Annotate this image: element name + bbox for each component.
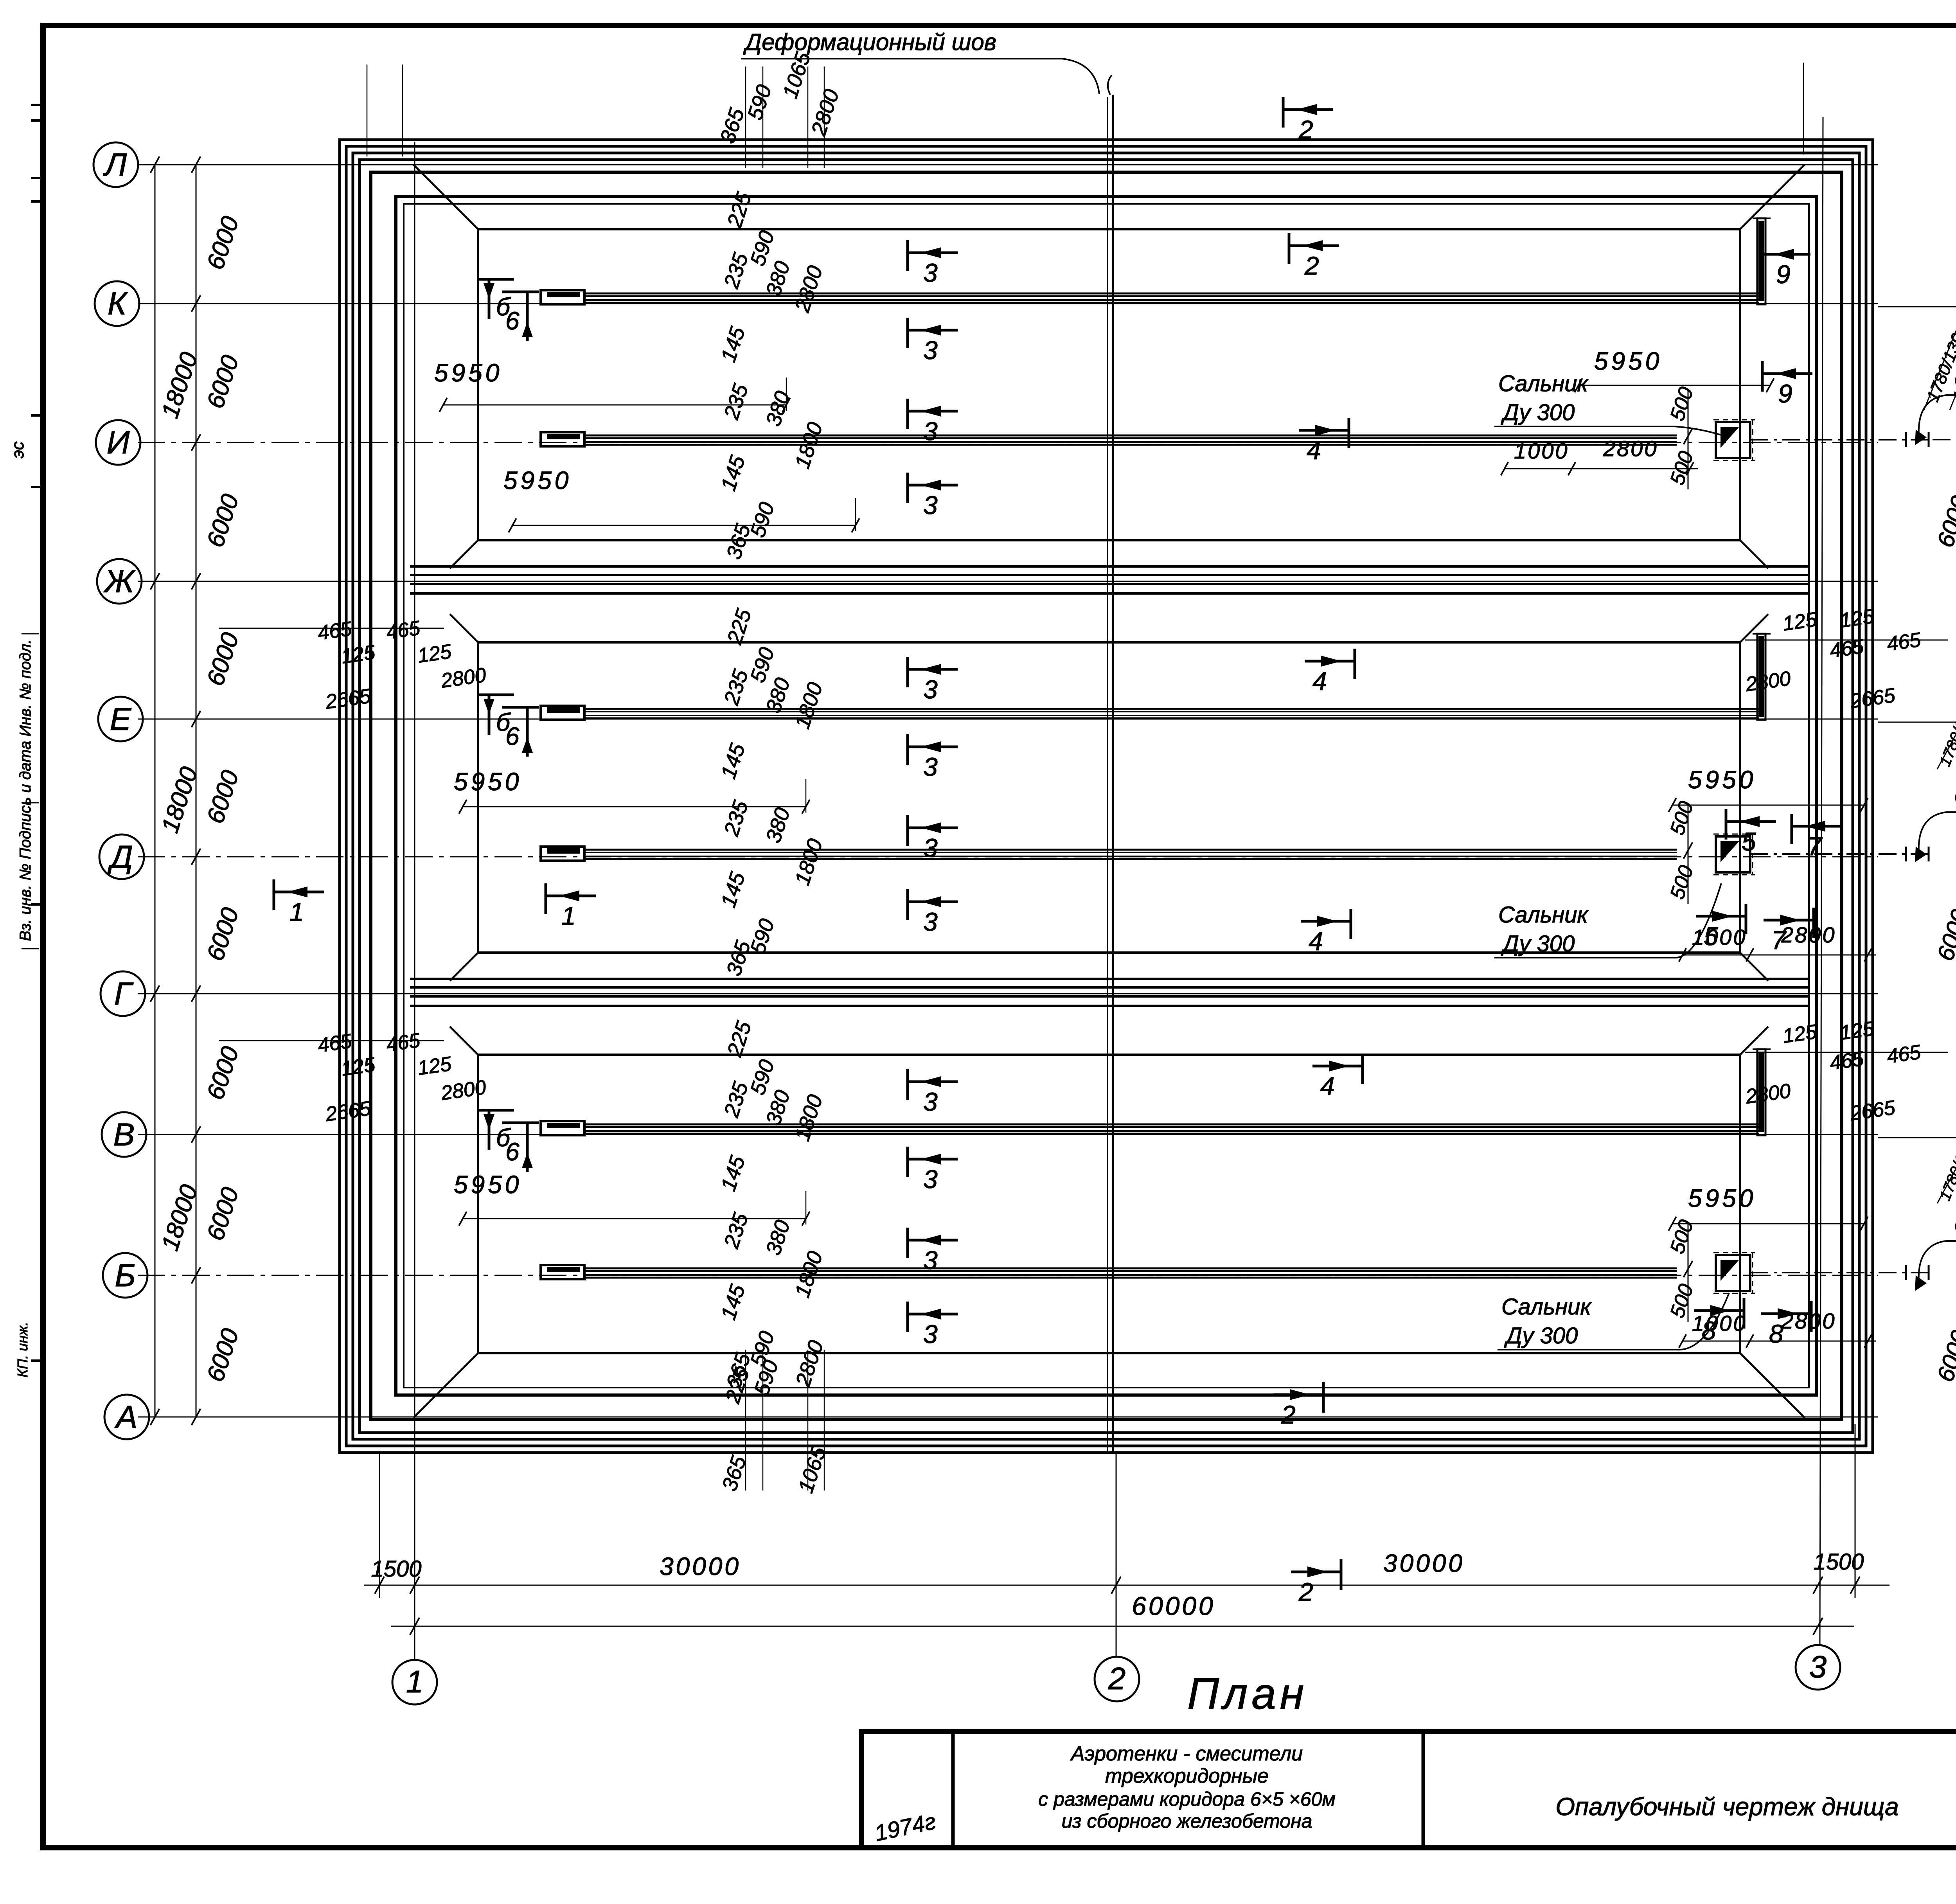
svg-text:6: 6 (505, 307, 520, 335)
section flags 6-6 (477, 279, 514, 321)
svg-text:1000: 1000 (1692, 1311, 1747, 1336)
axis bubble А (104, 1395, 149, 1439)
section flags 2-2 (1283, 97, 1333, 144)
tank 1 corner miters (413, 165, 478, 229)
svg-text:125: 125 (1839, 605, 1876, 632)
svg-text:125: 125 (340, 641, 377, 668)
svg-text:Ж: Ж (103, 564, 136, 599)
axis bubble К (95, 281, 139, 326)
svg-text:5950: 5950 (454, 1170, 522, 1199)
svg-text:2800: 2800 (1603, 436, 1658, 461)
svg-text:6: 6 (505, 722, 520, 750)
band 2: lower filter channel at axis Д (584, 849, 1677, 851)
svg-text:465: 465 (316, 1030, 354, 1057)
svg-text:9: 9 (1778, 379, 1792, 408)
band 2: сальник gland box (1716, 836, 1750, 872)
band 2: lower channel left end box (541, 847, 584, 861)
svg-text:из сборного железобетона: из сборного железобетона (1062, 1810, 1312, 1832)
section flags 3-3 (908, 240, 958, 287)
svg-text:5950: 5950 (1688, 1184, 1756, 1212)
svg-text:465: 465 (1828, 635, 1866, 662)
svg-text:465: 465 (1886, 628, 1923, 656)
svg-text:5950: 5950 (454, 768, 522, 796)
band 2: upper channel left end box (541, 706, 584, 720)
svg-text:К: К (108, 286, 128, 322)
svg-text:План: План (1187, 1669, 1308, 1718)
axis line В (138, 1134, 1878, 1135)
plan: outer wall inner face (396, 196, 1817, 1395)
tank 1 interior outline (478, 229, 1740, 540)
band 1: 500 dims at gland (1688, 391, 1689, 489)
band 3: upper filter channel at axis В (584, 1124, 1759, 1125)
dim extension verticals top & bottom (367, 65, 368, 156)
svg-text:Г: Г (114, 976, 134, 1012)
bottom dim line 60000 (391, 1626, 1854, 1627)
svg-text:3: 3 (923, 258, 938, 287)
left margin binder tick marks (31, 104, 44, 106)
svg-text:5950: 5950 (1688, 766, 1756, 794)
axis line 1 vertical (414, 142, 415, 1659)
axis line И (138, 442, 1878, 443)
bottom axis bubbles 1 2 3 (392, 1660, 437, 1704)
axis line 3 vertical (1820, 117, 1823, 1645)
svg-text:КП. инж.: КП. инж. (14, 1322, 31, 1377)
band 3: lower channel left end box (541, 1265, 584, 1279)
svg-text:Стальной: Стальной (1954, 784, 1956, 809)
band 3: upper channel left end box (541, 1121, 584, 1135)
svg-text:1: 1 (289, 897, 304, 926)
svg-text:Опалубочный чертеж днища: Опалубочный чертеж днища (1555, 1793, 1898, 1821)
svg-text:125: 125 (1782, 608, 1819, 635)
svg-text:Деформационный шов: Деформационный шов (743, 29, 996, 55)
svg-text:3: 3 (923, 491, 938, 520)
section flag 1-1 left margin (274, 879, 324, 926)
svg-text:1000: 1000 (1692, 925, 1747, 949)
svg-text:А: А (114, 1399, 138, 1435)
left dim line 6000 chain (196, 165, 197, 1417)
axis bubble Д (99, 834, 144, 879)
svg-text:трехкоридорные: трехкоридорные (1105, 1765, 1269, 1787)
tank 2 interior outline (478, 642, 1740, 953)
svg-text:Л: Л (103, 147, 127, 183)
svg-text:465: 465 (385, 617, 422, 644)
axis bubble В (102, 1112, 146, 1157)
band 3: steel casing pipe dash-dot (1750, 1272, 1933, 1273)
extension verticals for bottom 1500 dims (379, 1453, 380, 1598)
svg-text:5950: 5950 (1594, 347, 1662, 375)
svg-text:3: 3 (923, 675, 938, 704)
axis line Л (138, 164, 1878, 165)
svg-text:3: 3 (1809, 1649, 1827, 1684)
svg-text:3: 3 (923, 417, 938, 446)
svg-text:9: 9 (1776, 260, 1791, 289)
svg-text:1: 1 (561, 901, 576, 930)
axis bubble Е (98, 697, 143, 741)
svg-text:4: 4 (1320, 1072, 1335, 1100)
band 2: upper filter channel at axis Е (584, 708, 1759, 710)
band 1: upper filter channel at axis К (584, 293, 1759, 295)
svg-text:Ду 300: Ду 300 (1501, 931, 1575, 956)
tank 2 corner miters (450, 614, 478, 642)
svg-text:3: 3 (923, 1320, 938, 1348)
svg-text:Сальник: Сальник (1501, 1294, 1592, 1320)
svg-text:2800: 2800 (1781, 922, 1836, 947)
svg-text:6: 6 (505, 1138, 520, 1166)
svg-text:3: 3 (923, 833, 938, 862)
svg-text:Вз. инв. № Подпись и дата: Вз. инв. № Подпись и дата Инв. № подл. (17, 639, 34, 941)
band 1: lower channel left end box (541, 432, 584, 446)
expansion joint (деформационный шов) double line (1107, 97, 1108, 1453)
svg-text:465: 465 (316, 617, 354, 645)
svg-text:с размерами коридора 6×5 ×60м: с размерами коридора 6×5 ×60м (1038, 1788, 1336, 1810)
axis bubble Г (101, 971, 145, 1016)
axis line Г (138, 993, 1878, 994)
band 3: lower filter channel at axis Б (584, 1268, 1677, 1269)
axis bubble И (96, 420, 140, 465)
svg-text:1500: 1500 (371, 1556, 421, 1582)
svg-text:2: 2 (1304, 251, 1319, 280)
svg-text:125: 125 (1782, 1020, 1819, 1048)
section flags 4-4 (1299, 418, 1349, 465)
svg-text:3: 3 (923, 1246, 938, 1275)
dividing wall band at axis Г (410, 978, 1808, 980)
svg-text:В: В (113, 1117, 135, 1152)
svg-text:И: И (107, 425, 130, 460)
svg-text:2: 2 (1298, 1577, 1313, 1606)
axis И dash-dot extension to mark table (1933, 439, 1956, 440)
svg-text:2: 2 (1108, 1661, 1126, 1696)
svg-text:Б: Б (115, 1258, 135, 1293)
svg-text:Е: Е (110, 701, 132, 737)
left dim line 18000 chain (155, 165, 156, 1417)
svg-text:465: 465 (1886, 1041, 1923, 1068)
svg-text:465: 465 (385, 1029, 422, 1056)
axis bubble Ж (97, 559, 142, 604)
svg-text:эс: эс (8, 441, 27, 458)
svg-text:30000: 30000 (1383, 1549, 1465, 1577)
svg-text:Стальной: Стальной (1954, 1213, 1956, 1238)
svg-text:3: 3 (923, 1165, 938, 1194)
axis line 2 vertical below plan (1116, 1453, 1117, 1656)
plan: nested outer slab edge rectangles (340, 140, 1873, 1453)
svg-text:3: 3 (923, 907, 938, 936)
dividing wall band at axis Ж (410, 565, 1808, 568)
svg-text:5950: 5950 (503, 466, 572, 494)
band 3: upper channel right riser (1757, 1049, 1765, 1135)
svg-text:60000: 60000 (1132, 1591, 1215, 1620)
svg-text:2800: 2800 (1781, 1309, 1836, 1333)
svg-text:125: 125 (340, 1053, 377, 1081)
axis bubble Б (103, 1253, 147, 1298)
band 3: 500 dims at gland (1688, 1224, 1689, 1322)
svg-text:3: 3 (923, 1087, 938, 1116)
svg-text:2: 2 (1298, 115, 1313, 144)
plan: wall inner chamfer line (404, 204, 1809, 1388)
svg-text:5950: 5950 (434, 359, 502, 387)
svg-text:4: 4 (1309, 927, 1323, 956)
axis line Д (138, 856, 1878, 858)
axis line К (138, 303, 1878, 304)
svg-text:1000: 1000 (1514, 439, 1569, 463)
svg-text:125: 125 (416, 640, 453, 667)
svg-text:4: 4 (1307, 436, 1321, 465)
svg-text:Ду 300: Ду 300 (1501, 400, 1575, 425)
svg-text:1: 1 (406, 1664, 424, 1699)
svg-text:3: 3 (923, 336, 938, 365)
tank 3 interior outline (478, 1055, 1740, 1353)
svg-text:125: 125 (1839, 1017, 1876, 1045)
svg-text:2: 2 (1281, 1400, 1296, 1429)
axis extensions К Е В to fan (1878, 306, 1956, 307)
plan: outer wall outer face (371, 172, 1842, 1419)
band 1: сальник gland box (1716, 422, 1750, 458)
band 1: steel casing pipe dash-dot (1750, 439, 1933, 440)
band 1: upper channel left end box (541, 290, 584, 304)
svg-text:Аэротенки - смесители: Аэротенки - смесители (1070, 1742, 1303, 1765)
svg-text:1500: 1500 (1813, 1549, 1864, 1575)
band 3: сальник gland box (1716, 1255, 1750, 1291)
svg-text:4: 4 (1312, 667, 1327, 696)
svg-text:5: 5 (1742, 827, 1756, 856)
band 2: upper channel right riser (1757, 634, 1765, 720)
axis bubble Л (93, 142, 138, 187)
svg-text:Сальник: Сальник (1498, 902, 1589, 928)
svg-text:465: 465 (1828, 1047, 1866, 1075)
band 2: 500 dims at gland (1688, 805, 1689, 904)
svg-text:Д: Д (107, 839, 133, 875)
section flags 5-5 and 7-7 (1726, 809, 1776, 856)
axis line Б (138, 1275, 1878, 1276)
section flags 8-8 (1694, 1298, 1744, 1345)
band 2: steel casing pipe dash-dot (1750, 853, 1933, 855)
svg-text:3: 3 (923, 752, 938, 781)
tank 3 corner miters (450, 1027, 478, 1055)
bottom dim line 1500/30000/30000/1500 (364, 1585, 1889, 1586)
title block (861, 1731, 1956, 1848)
band 1: upper channel right riser (1757, 218, 1765, 304)
band 1: lower filter channel at axis И (584, 435, 1677, 437)
svg-text:30000: 30000 (660, 1552, 741, 1580)
axis line А (138, 1417, 1878, 1418)
svg-text:7: 7 (1807, 832, 1823, 861)
svg-text:125: 125 (416, 1052, 453, 1080)
svg-text:Ду 300: Ду 300 (1504, 1323, 1578, 1348)
section flag 1-1 inside plan (546, 883, 596, 930)
section flags 9-9 (1760, 242, 1810, 289)
axis line Ж (138, 581, 1878, 582)
axis line Е (138, 719, 1878, 720)
